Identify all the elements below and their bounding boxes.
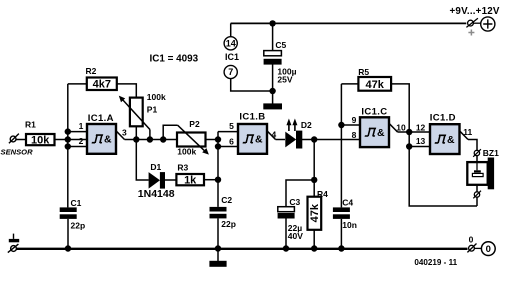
svg-text:1: 1 xyxy=(79,121,84,131)
op-amp gate IC1.D xyxy=(430,113,460,155)
svg-text:25V: 25V xyxy=(277,74,292,84)
buzzer BZ1 xyxy=(467,158,494,190)
svg-text:100k: 100k xyxy=(147,92,166,102)
svg-text:47k: 47k xyxy=(366,79,385,91)
wire pin5 stub xyxy=(218,131,238,133)
resistor R1 xyxy=(25,120,55,147)
svg-text:2: 2 xyxy=(79,136,84,146)
svg-text:3: 3 xyxy=(122,127,127,137)
svg-text:C4: C4 xyxy=(342,198,353,208)
svg-text:47k: 47k xyxy=(309,203,321,222)
svg-text:D2: D2 xyxy=(301,120,312,130)
circle 0 output xyxy=(481,242,495,256)
wire R4 drop xyxy=(313,140,315,197)
wire pin2 stub xyxy=(68,146,87,148)
ground bar under C2 xyxy=(209,250,226,267)
svg-text:R3: R3 xyxy=(177,162,188,172)
svg-text:BZ1: BZ1 xyxy=(483,148,499,158)
svg-text:IC1: IC1 xyxy=(225,52,239,62)
label IC1 xyxy=(225,52,239,62)
svg-text:12: 12 xyxy=(416,123,426,133)
node junction pin12 xyxy=(406,129,412,135)
capacitor C2 xyxy=(210,195,236,229)
wire connector to buzzer xyxy=(476,156,478,162)
svg-text:IC1.C: IC1.C xyxy=(361,106,387,117)
potentiometer P2 xyxy=(177,119,209,156)
svg-text:R2: R2 xyxy=(86,66,97,76)
node junction D2 out xyxy=(311,136,317,142)
label SENSOR xyxy=(1,148,34,157)
wire P2 wiper riser xyxy=(163,125,177,139)
label 040219-11 xyxy=(414,258,457,267)
svg-text:C3: C3 xyxy=(289,197,300,207)
svg-text:14: 14 xyxy=(226,39,236,49)
svg-text:D1: D1 xyxy=(150,162,161,172)
label pin 1 xyxy=(79,121,84,131)
node junction C5 bottom xyxy=(269,88,275,94)
connector sensor input xyxy=(9,134,19,144)
svg-text:6: 6 xyxy=(229,137,234,147)
node junction pin9 xyxy=(338,122,344,128)
svg-text:+9V...+12V: +9V...+12V xyxy=(450,6,500,17)
svg-text:13: 13 xyxy=(416,136,426,146)
resistor R3 xyxy=(176,162,204,186)
svg-text:&: & xyxy=(104,134,112,146)
resistor R4 xyxy=(308,189,329,230)
node junction R4 top xyxy=(311,177,317,183)
wire C4 to bus xyxy=(340,219,342,249)
svg-text:10n: 10n xyxy=(342,220,357,230)
capacitor C1 xyxy=(60,198,85,231)
svg-text:1k: 1k xyxy=(184,175,197,187)
svg-text:10: 10 xyxy=(396,122,406,132)
svg-text:4: 4 xyxy=(272,130,277,140)
node junction P1 bottom xyxy=(133,136,139,142)
wire gate D output to BZ1 xyxy=(468,140,477,151)
pin 14 circle xyxy=(224,37,237,50)
label pin 8 xyxy=(352,130,357,140)
wire pin1 stub xyxy=(68,131,87,133)
inverter slash gate B output xyxy=(267,130,277,140)
svg-text:5: 5 xyxy=(229,121,234,131)
wire D1 branch drop xyxy=(136,140,148,181)
wire C2 vertical xyxy=(217,132,219,207)
wire R5 right xyxy=(391,84,477,206)
node junction P1 wiper xyxy=(147,136,153,142)
node junction C5 top xyxy=(269,20,275,26)
ground terminal bottom left xyxy=(8,234,19,253)
node junction C4 bus xyxy=(338,245,344,251)
svg-text:P1: P1 xyxy=(147,104,158,114)
resistor R5 xyxy=(358,67,391,91)
svg-text:4k7: 4k7 xyxy=(93,79,111,91)
connector BZ1 bottom xyxy=(473,191,481,199)
capacitor C5 leads xyxy=(272,23,274,103)
node junction pin1 xyxy=(65,128,71,134)
capacitor C5 xyxy=(264,40,297,85)
wire D2 to pin8 xyxy=(301,139,360,141)
svg-text:11: 11 xyxy=(463,127,472,137)
wire C3 to bus xyxy=(285,219,287,249)
capacitor C4 xyxy=(333,198,357,230)
svg-text:R5: R5 xyxy=(358,67,369,77)
svg-text:IC1.A: IC1.A xyxy=(88,113,114,124)
label 0 terminal xyxy=(469,235,474,245)
svg-text:C2: C2 xyxy=(221,195,232,205)
connector supply terminal xyxy=(466,18,481,35)
wire pin6 stub xyxy=(218,146,238,148)
wire C1 to ground bus xyxy=(67,219,69,249)
label pin 6 xyxy=(229,137,234,147)
node junction C1 bus xyxy=(65,245,71,251)
wire pin9/C4 vertical xyxy=(340,84,342,207)
inverter slash gate C output xyxy=(389,122,406,132)
op-amp gate IC1.C xyxy=(360,106,389,147)
svg-text:0: 0 xyxy=(469,235,474,245)
wire gate A output main xyxy=(125,139,178,141)
svg-text:P2: P2 xyxy=(189,119,200,129)
svg-text:SENSOR: SENSOR xyxy=(1,148,34,157)
label pin 9 xyxy=(352,115,357,125)
inverter slash gate A output xyxy=(116,127,127,139)
label IC1 = 4093 xyxy=(150,53,199,64)
inverter slash gate D output xyxy=(460,127,473,140)
wire gate C output xyxy=(398,131,410,133)
wire R2 to P1 top xyxy=(117,84,137,98)
wire pin9 stub xyxy=(341,124,360,126)
wire D1 to R3 xyxy=(165,179,176,181)
label +9V...+12V xyxy=(450,6,500,17)
svg-text:100k: 100k xyxy=(177,146,196,156)
svg-text:R4: R4 xyxy=(317,189,328,199)
svg-text:0: 0 xyxy=(486,244,491,255)
connector BZ1 top xyxy=(473,148,499,158)
wire buzzer bottom xyxy=(476,185,478,192)
LED D2 xyxy=(285,119,312,149)
node junction P2 right xyxy=(215,136,221,142)
svg-text:IC1.D: IC1.D xyxy=(430,113,456,124)
wire R5 left xyxy=(341,83,358,85)
label pin 12 xyxy=(416,123,426,133)
label pin 5 xyxy=(229,121,234,131)
wire top supply rail xyxy=(231,22,467,24)
wire pin12 stub xyxy=(409,131,430,133)
svg-text:C1: C1 xyxy=(71,198,82,208)
wire R1 to gate A inputs xyxy=(55,139,88,141)
node junction R4 bus xyxy=(311,245,317,251)
connector 0 terminal xyxy=(467,244,481,253)
node junction R3 xyxy=(215,177,221,183)
op-amp gate IC1.A xyxy=(87,113,116,154)
wire R2 left xyxy=(68,83,87,85)
wire C2 to bus xyxy=(217,218,219,248)
wire gate B output to D2 xyxy=(276,139,286,141)
svg-text:040219 - 11: 040219 - 11 xyxy=(414,258,457,267)
svg-text:22p: 22p xyxy=(221,219,236,229)
wire pin7 to ground node xyxy=(231,79,273,91)
svg-text:C5: C5 xyxy=(275,40,286,50)
wire ground bus xyxy=(16,248,467,250)
wire C3 branch xyxy=(286,180,314,207)
wire P1 bottom xyxy=(135,126,137,139)
capacitor C3 xyxy=(278,197,304,241)
svg-text:&: & xyxy=(447,134,455,146)
wire R4 to bus xyxy=(313,230,315,249)
wire pin13 stub xyxy=(409,146,430,148)
node junction C2 bus xyxy=(215,245,221,251)
svg-text:10k: 10k xyxy=(31,135,50,147)
svg-text:&: & xyxy=(255,134,263,146)
node junction pin2 xyxy=(65,143,71,149)
resistor R2 xyxy=(86,66,117,91)
diode D1 xyxy=(138,162,175,200)
wire node vertical R2/C1 xyxy=(67,84,69,207)
svg-text:7: 7 xyxy=(228,67,233,77)
label pin 13 xyxy=(416,136,426,146)
svg-text:40V: 40V xyxy=(288,231,303,241)
wire BZ1 bottom to loop xyxy=(476,198,478,207)
svg-text:8: 8 xyxy=(352,130,357,140)
svg-text:22p: 22p xyxy=(71,220,86,230)
node junction pin6 xyxy=(215,143,221,149)
node junction P2 wiper xyxy=(160,136,166,142)
node junction pin13 xyxy=(406,143,412,149)
pin 7 circle xyxy=(224,65,237,78)
svg-text:1N4148: 1N4148 xyxy=(138,188,175,200)
svg-text:IC1.B: IC1.B xyxy=(239,112,265,123)
ground bar under C5 xyxy=(263,103,282,109)
svg-text:&: & xyxy=(377,127,385,139)
svg-text:R1: R1 xyxy=(25,120,36,130)
label pin 2 xyxy=(79,136,84,146)
potentiometer P1 xyxy=(119,92,166,130)
node junction R1 xyxy=(65,136,71,142)
svg-text:9: 9 xyxy=(352,115,357,125)
wire input to R1 xyxy=(16,139,26,141)
svg-text:IC1 = 4093: IC1 = 4093 xyxy=(150,53,199,64)
wire P1 wiper drop xyxy=(149,130,151,140)
wire P2 right xyxy=(206,139,219,141)
wire R3 right xyxy=(204,179,218,181)
node junction C3 bus xyxy=(283,245,289,251)
op-amp gate IC1.B xyxy=(238,112,267,154)
battery plus circle xyxy=(481,17,495,31)
wire pin14 stub xyxy=(230,23,232,36)
